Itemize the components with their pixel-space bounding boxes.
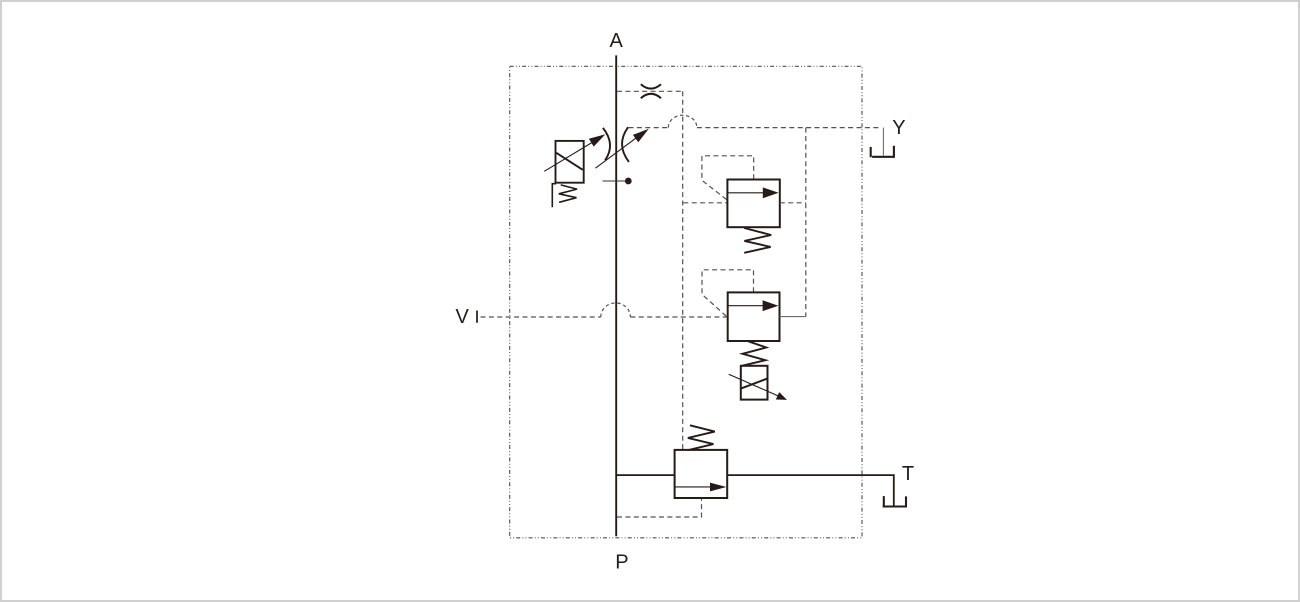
V port tick [476,311,478,323]
wire: T line [727,475,894,506]
node Y label [892,117,905,139]
wire: dashed V line with hop over A line [481,303,728,317]
svg-text:Y: Y [892,117,905,139]
valve V1 spring [744,228,771,253]
valve V1 pilot flag (dashed) [702,156,754,200]
dash-dot border envelope [510,66,862,538]
node T label [902,463,914,485]
wire: dashed branch from A-line to orifice [617,90,683,92]
wire: P line to main valve [617,474,675,476]
svg-text:A: A [610,30,624,52]
valve V2 pilot flag (dashed) [702,270,754,317]
arrow 2 (pilot adjustment arrow to Y line) [595,129,648,168]
svg-text:P: P [615,552,628,574]
wire: dashed stub right of valve V1 [780,202,806,204]
variable orifice block under V2 [741,366,768,400]
node A label [610,30,624,52]
wire: dashed stub left of valve V1 [683,202,727,204]
arc right (pilot curve) [622,127,629,162]
proportional solenoid block (pilot adjuster) [556,141,584,183]
valve V2 arrow [728,300,778,311]
wire: Y port drop line [882,128,884,156]
main line A-P [615,55,617,536]
node P label [615,552,628,574]
T port tank symbol [883,496,907,507]
valve V1 body (pilot relief) [727,180,779,228]
main valve body (unloading valve) [675,450,728,498]
Y port tank symbol [871,146,895,157]
valve V1 arrow [728,187,779,198]
wire: solid stub right of valve V2 [780,316,806,318]
arc left (pilot curve) [603,128,610,160]
wire: dashed Y line with hop [629,115,882,127]
wire: vertical dashed pilot line x=682.7 [682,91,684,449]
svg-text:T: T [902,463,914,485]
orifice (restrictor) on branch [641,84,661,98]
variable orifice adjustment arrow [729,374,787,400]
svg-text:V: V [456,306,470,328]
blocked port dot on A line [603,178,632,185]
wire: vertical dashed line x=805.8 [805,128,807,317]
main valve arrow [675,483,726,492]
drain line of solenoid block [552,184,556,208]
valve V2 body (pressure valve) [728,292,780,341]
main valve spring [688,425,715,450]
valve V2 spring [742,341,766,366]
arrow 1 (proportional adjustment arrow) [544,134,605,171]
spring under solenoid block [559,185,577,202]
wire: dashed pilot under main valve [617,499,702,517]
node V label [456,306,470,328]
